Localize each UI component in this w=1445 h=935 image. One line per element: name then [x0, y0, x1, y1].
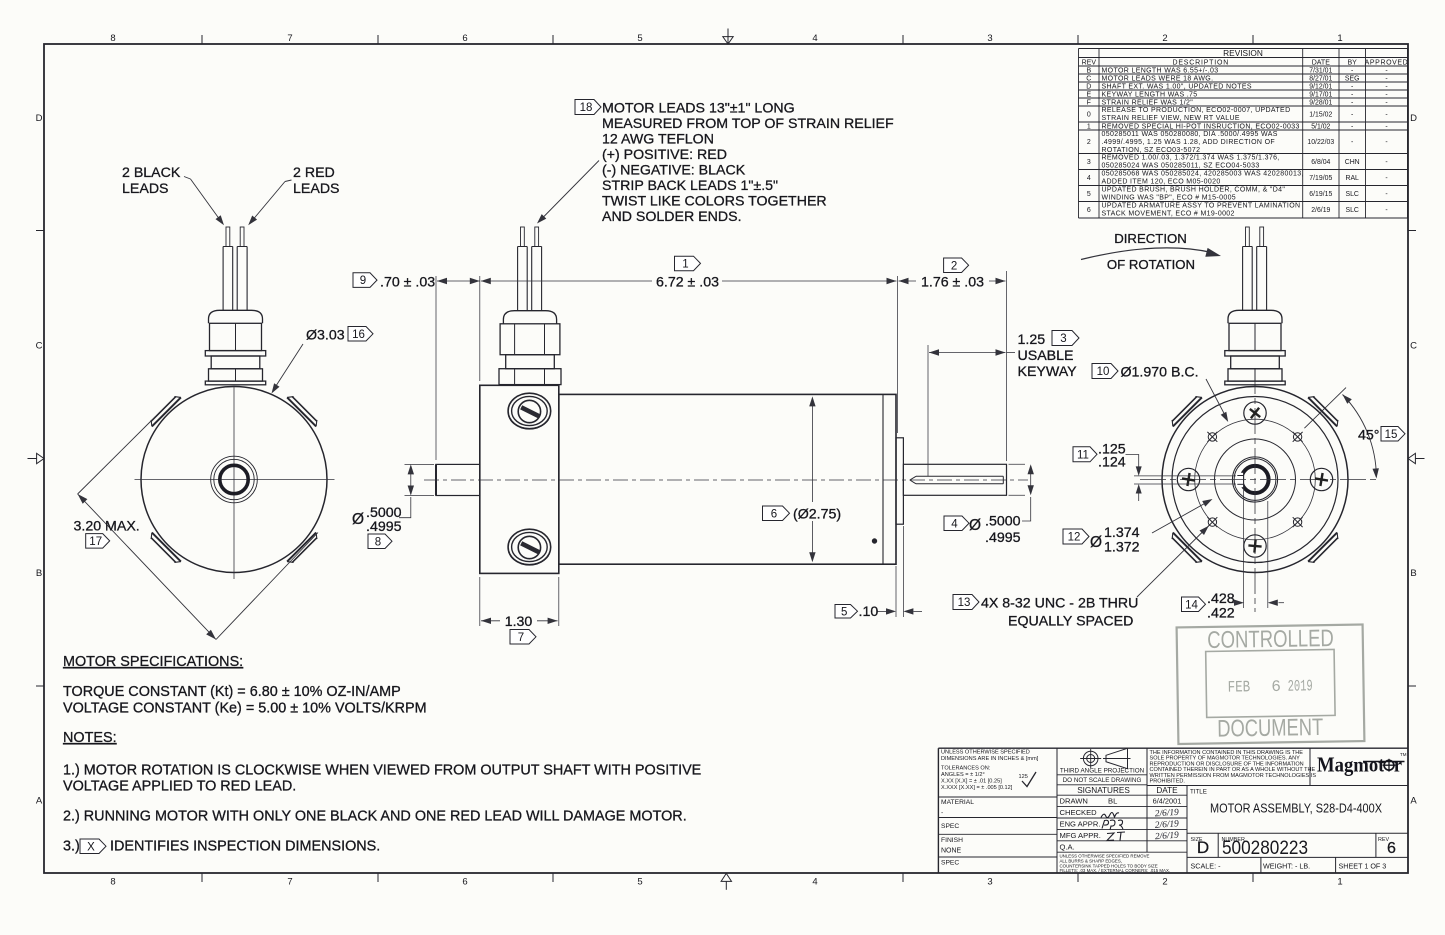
svg-text:3.20 MAX.: 3.20 MAX.: [74, 519, 140, 535]
svg-text:3.): 3.): [63, 839, 80, 855]
svg-text:MATERIAL: MATERIAL: [941, 799, 974, 806]
svg-text:NOTES:: NOTES:: [63, 730, 117, 746]
svg-text:.4999/.4995, 1.25 WAS 1.28, AD: .4999/.4995, 1.25 WAS 1.28, ADD DIRECTIO…: [1102, 139, 1275, 146]
svg-text:PROHIBITED.: PROHIBITED.: [1150, 779, 1186, 785]
svg-text:9/12/01: 9/12/01: [1309, 83, 1332, 90]
svg-text:X.XXX [X.XX] = ± .005 [0.12]: X.XXX [X.XX] = ± .005 [0.12]: [941, 785, 1013, 791]
front view bearing boss circles: [211, 456, 258, 503]
extension lines for length dims: [435, 276, 437, 460]
svg-text:-: -: [1351, 139, 1353, 146]
side view end cap joint line: [882, 394, 884, 564]
svg-text:(+) POSITIVE: RED: (+) POSITIVE: RED: [602, 147, 727, 163]
svg-text:500280223: 500280223: [1222, 837, 1308, 859]
svg-text:ENG APPR.: ENG APPR.: [1060, 820, 1101, 829]
rear view tapped holes 8-32 on bolt circle: [1293, 433, 1301, 441]
svg-text:D: D: [1086, 83, 1091, 90]
svg-text:-: -: [1385, 75, 1387, 82]
side view shaft keyway: [916, 475, 1003, 477]
svg-text:ANGLES = ± 1/2°: ANGLES = ± 1/2°: [941, 772, 985, 778]
svg-text:REVISION: REVISION: [1223, 48, 1263, 58]
svg-text:125: 125: [1019, 774, 1028, 780]
svg-text:4: 4: [812, 877, 817, 888]
svg-text:STRIP BACK LEADS 1"±.5": STRIP BACK LEADS 1"±.5": [602, 178, 778, 194]
svg-text:DIMENSIONS ARE IN INCHES & [mm: DIMENSIONS ARE IN INCHES & [mm]: [941, 756, 1039, 762]
svg-text:USABLE: USABLE: [1018, 348, 1074, 364]
svg-text:9: 9: [360, 275, 366, 287]
svg-text:RAL: RAL: [1345, 175, 1359, 182]
rear view pilot boss circle dia 1.374: [1215, 439, 1296, 520]
svg-text:17: 17: [89, 536, 102, 548]
svg-text:Ø: Ø: [352, 511, 364, 528]
svg-text:Ø: Ø: [969, 517, 981, 534]
svg-text:LEADS: LEADS: [293, 181, 340, 197]
svg-text:.4995: .4995: [985, 530, 1021, 546]
svg-text:6: 6: [462, 877, 467, 888]
svg-text:2: 2: [1162, 33, 1167, 44]
svg-text:7: 7: [287, 33, 292, 44]
rear view housing inner rim circle: [1172, 397, 1338, 563]
svg-text:(-) NEGATIVE: BLACK: (-) NEGATIVE: BLACK: [602, 162, 746, 178]
svg-text:F: F: [1087, 99, 1091, 106]
svg-text:FINISH: FINISH: [941, 837, 963, 844]
svg-text:.124: .124: [1098, 455, 1126, 471]
svg-text:6/19/15: 6/19/15: [1309, 191, 1332, 198]
svg-text:SCALE: -: SCALE: -: [1191, 862, 1222, 871]
svg-text:7: 7: [518, 632, 524, 644]
checked signature squiggle: [1101, 813, 1119, 818]
svg-text:1.372: 1.372: [1104, 540, 1140, 556]
leader to red leads: [285, 180, 292, 182]
mounting band tabs at 45 degrees: [1308, 397, 1337, 426]
svg-text:B: B: [36, 568, 42, 579]
svg-text:SPEC: SPEC: [941, 860, 959, 867]
svg-text:10/22/03: 10/22/03: [1307, 139, 1334, 146]
svg-text:B: B: [1410, 568, 1416, 579]
svg-text:5: 5: [637, 877, 642, 888]
svg-text:2: 2: [951, 260, 957, 272]
svg-text:STACK MOVEMENT, ECO # M19-0002: STACK MOVEMENT, ECO # M19-0002: [1102, 210, 1235, 217]
dim 3.20 max across tabs: [78, 494, 216, 640]
svg-text:-: -: [1385, 123, 1387, 130]
dim .428/.422 flag 14: [1243, 490, 1245, 608]
rear view bolt circle dia 1.970: [1195, 419, 1316, 540]
svg-text:VOLTAGE CONSTANT (Ke) = 5.00 ±: VOLTAGE CONSTANT (Ke) = 5.00 ± 10% VOLTS…: [63, 701, 427, 717]
svg-text:1.) MOTOR ROTATION IS CLOCKWIS: 1.) MOTOR ROTATION IS CLOCKWISE WHEN VIE…: [63, 763, 701, 779]
svg-text:1/15/02: 1/15/02: [1309, 111, 1332, 118]
svg-text:-: -: [1351, 83, 1353, 90]
svg-text:050285024 WAS 050285011, SZ EC: 050285024 WAS 050285011, SZ ECO04-5033: [1102, 162, 1260, 169]
svg-text:IDENTIFIES INSPECTION DIMENSIO: IDENTIFIES INSPECTION DIMENSIONS.: [110, 839, 380, 855]
strain relief cable gland: [503, 311, 556, 324]
svg-text:DOCUMENT: DOCUMENT: [1217, 714, 1324, 743]
svg-text:THIRD ANGLE PROJECTION: THIRD ANGLE PROJECTION: [1060, 767, 1145, 774]
svg-text:AND SOLDER ENDS.: AND SOLDER ENDS.: [602, 209, 742, 225]
svg-text:REMOVED 1.00/.03, 1.372/1.374: REMOVED 1.00/.03, 1.372/1.374 WAS 1.375/…: [1102, 154, 1280, 161]
svg-text:3: 3: [1060, 333, 1066, 345]
svg-text:-: -: [1385, 67, 1387, 74]
svg-text:8: 8: [110, 877, 115, 888]
svg-text:2.) RUNNING MOTOR WITH ONLY ON: 2.) RUNNING MOTOR WITH ONLY ONE BLACK AN…: [63, 809, 687, 825]
svg-text:FILLETS: .03 MAX. / EXTERNAL C: FILLETS: .03 MAX. / EXTERNAL CORNERS: .0…: [1060, 868, 1171, 873]
svg-text:1.25: 1.25: [1018, 332, 1046, 348]
svg-text:STRAIN RELIEF WAS 1/2": STRAIN RELIEF WAS 1/2": [1102, 100, 1194, 107]
side view output shaft: [903, 464, 1006, 495]
dim dia 1.970 BC flag 10: [1092, 364, 1118, 379]
tangent extension line upper-left: [78, 417, 156, 495]
front view motor housing circle: [141, 387, 327, 573]
border centering arrow right: [1415, 458, 1424, 460]
strain relief cable gland: [209, 310, 263, 323]
svg-text:6: 6: [1087, 207, 1091, 214]
dim dia 1.374/1.372 flag 12: [1063, 529, 1089, 544]
svg-text:APPROVED: APPROVED: [1365, 59, 1409, 66]
svg-text:KEYWAY LENGTH WAS .75: KEYWAY LENGTH WAS .75: [1102, 92, 1198, 99]
side view mounting screws: [508, 393, 551, 429]
svg-text:(Ø2.75): (Ø2.75): [793, 507, 841, 523]
svg-text:MOTOR ASSEMBLY, S28-D4-400X: MOTOR ASSEMBLY, S28-D4-400X: [1210, 801, 1382, 816]
eng appr signature squiggle: [1102, 820, 1123, 830]
svg-text:2 RED: 2 RED: [293, 165, 335, 181]
side view vent dot: [872, 539, 876, 543]
svg-text:.422: .422: [1207, 606, 1235, 622]
svg-text:UPDATED ARMATURE ASSY TO PREVE: UPDATED ARMATURE ASSY TO PREVENT LAMINAT…: [1102, 202, 1301, 209]
svg-text:6: 6: [771, 508, 777, 520]
svg-text:MOTOR LEADS 13"±1" LONG: MOTOR LEADS 13"±1" LONG: [602, 100, 795, 116]
svg-text:3: 3: [987, 877, 992, 888]
svg-text:4X 8-32 UNC - 2B THRU: 4X 8-32 UNC - 2B THRU: [981, 596, 1138, 612]
svg-text:-: -: [1385, 99, 1387, 106]
svg-text:TORQUE CONSTANT (Kt) = 6.80 ±: TORQUE CONSTANT (Kt) = 6.80 ± 10% OZ-IN/…: [63, 684, 401, 700]
svg-text:1.76 ± .03: 1.76 ± .03: [921, 274, 984, 290]
svg-text:CHECKED: CHECKED: [1060, 808, 1098, 817]
svg-text:LEADS: LEADS: [122, 181, 169, 197]
svg-text:DESCRIPTION: DESCRIPTION: [1172, 59, 1229, 66]
svg-text:C: C: [36, 341, 43, 352]
svg-text:CHN: CHN: [1345, 159, 1360, 166]
svg-text:6.72 ± .03: 6.72 ± .03: [656, 274, 719, 290]
svg-text:18: 18: [580, 102, 593, 114]
rear view shaft circles: [1232, 457, 1277, 502]
svg-text:DO NOT SCALE DRAWING: DO NOT SCALE DRAWING: [1063, 777, 1142, 784]
svg-text:4: 4: [1087, 175, 1091, 182]
svg-text:TOLERANCES ON:: TOLERANCES ON:: [941, 766, 991, 772]
svg-text:MOTOR LEADS WERE 18 AWG.: MOTOR LEADS WERE 18 AWG.: [1102, 76, 1214, 83]
svg-text:12: 12: [1068, 532, 1081, 544]
dim dia .5000/.4995 left shaft flag 8: [405, 463, 435, 465]
svg-text:-: -: [1385, 91, 1387, 98]
svg-text:D: D: [36, 113, 43, 124]
svg-text:Q.A.: Q.A.: [1060, 842, 1075, 851]
mounting band tabs at 45 degrees: [287, 397, 316, 426]
svg-text:7: 7: [287, 877, 292, 888]
rear view housing outer circle: [1162, 387, 1348, 573]
svg-text:SLC: SLC: [1345, 207, 1358, 214]
motor lead wires: [222, 247, 224, 311]
dim .70 +- .03 flag 9: [353, 273, 377, 288]
controlled document stamp: [1177, 625, 1365, 744]
note 18 text block: [575, 100, 601, 115]
svg-text:1: 1: [682, 259, 688, 271]
svg-text:6/4/2001: 6/4/2001: [1153, 797, 1182, 806]
svg-text:2: 2: [1162, 877, 1167, 888]
svg-text:RELEASE TO PRODUCTION, ECO02-0: RELEASE TO PRODUCTION, ECO02-0007, UPDAT…: [1102, 107, 1291, 114]
svg-text:-: -: [941, 810, 943, 817]
svg-text:B: B: [1086, 67, 1091, 74]
front view centerlines: [135, 479, 335, 481]
svg-text:2 BLACK: 2 BLACK: [122, 165, 181, 181]
svg-text:MOTOR SPECIFICATIONS:: MOTOR SPECIFICATIONS:: [63, 654, 243, 670]
svg-text:16: 16: [352, 329, 365, 341]
side view front shaft stub: [436, 464, 480, 495]
svg-text:UPDATED BRUSH, BRUSH HOLDER, C: UPDATED BRUSH, BRUSH HOLDER, COMM, & "D4…: [1102, 186, 1286, 193]
svg-text:12 AWG TEFLON: 12 AWG TEFLON: [602, 131, 714, 147]
svg-text:ADDED ITEM 120, ECO M05-0020: ADDED ITEM 120, ECO M05-0020: [1102, 178, 1221, 185]
svg-text:4: 4: [812, 33, 817, 44]
svg-text:UNLESS OTHERWISE SPECIFIED: UNLESS OTHERWISE SPECIFIED: [941, 750, 1030, 756]
svg-text:D: D: [1197, 838, 1209, 857]
dim .10 boss flag 5: [895, 566, 897, 617]
svg-text:3: 3: [1087, 159, 1091, 166]
border centering arrow bottom: [725, 881, 727, 889]
svg-text:FEB: FEB: [1228, 678, 1251, 696]
side view motor body: [559, 394, 896, 564]
rear view shaft keyway slot: [1236, 473, 1244, 487]
svg-text:CONTROLLED: CONTROLLED: [1207, 625, 1334, 654]
border centering arrow top: [727, 29, 729, 45]
svg-text:8: 8: [375, 536, 381, 548]
tangent extension line lower-right: [216, 533, 318, 640]
svg-text:DRAWN: DRAWN: [1060, 797, 1088, 806]
svg-text:6: 6: [462, 33, 467, 44]
svg-text:050285068 WAS 050285024, 42028: 050285068 WAS 050285024, 420285003 WAS 4…: [1102, 170, 1304, 177]
dim 6.72 +- .03 flag 1: [675, 256, 701, 271]
svg-text:.4995: .4995: [366, 519, 402, 535]
svg-text:STRAIN RELIEF VIEW, NEW RT VAL: STRAIN RELIEF VIEW, NEW RT VALUE: [1102, 115, 1240, 122]
title block: [937, 748, 939, 873]
svg-text:7/19/05: 7/19/05: [1309, 175, 1332, 182]
svg-text:11: 11: [1077, 449, 1089, 461]
svg-text:VOLTAGE APPLIED TO RED LEAD.: VOLTAGE APPLIED TO RED LEAD.: [63, 779, 296, 795]
svg-text:OF ROTATION: OF ROTATION: [1107, 257, 1195, 272]
dim dia 2.75 flag 6: [811, 399, 813, 503]
dim dia .5000/.4995 output shaft flag 4: [1009, 463, 1026, 465]
svg-text:1: 1: [1337, 877, 1342, 888]
svg-text:KEYWAY: KEYWAY: [1018, 364, 1078, 380]
side view centerline: [424, 479, 1028, 481]
size number rev row: [1187, 832, 1408, 834]
svg-text:BL: BL: [1108, 797, 1117, 806]
svg-text:.5000: .5000: [985, 514, 1021, 530]
dim 1.30 flag 7: [479, 577, 481, 626]
svg-text:-: -: [1385, 83, 1387, 90]
svg-text:-: -: [1351, 111, 1353, 118]
svg-text:-: -: [1351, 99, 1353, 106]
svg-text:15: 15: [1385, 429, 1398, 441]
motor lead wires: [517, 247, 519, 311]
direction of rotation curved arrow: [1081, 248, 1212, 260]
note 4x 8-32 unc flag 13: [953, 595, 979, 610]
svg-text:-: -: [1385, 207, 1387, 214]
svg-text:-: -: [1351, 91, 1353, 98]
svg-text:5: 5: [1087, 191, 1091, 198]
svg-text:WEIGHT: - LB.: WEIGHT: - LB.: [1263, 862, 1310, 871]
svg-text:SEG: SEG: [1345, 75, 1360, 82]
svg-text:EQUALLY SPACED: EQUALLY SPACED: [1008, 614, 1133, 630]
svg-text:-: -: [1385, 159, 1387, 166]
side view rear pilot boss: [896, 438, 903, 524]
svg-text:Ø3.03: Ø3.03: [306, 328, 345, 344]
svg-text:9/28/01: 9/28/01: [1309, 99, 1332, 106]
svg-text:C: C: [1086, 75, 1091, 82]
dim 45 degrees flag 15: [1304, 388, 1346, 429]
svg-text:-: -: [1385, 191, 1387, 198]
svg-text:MEASURED FROM TOP OF STRAIN RE: MEASURED FROM TOP OF STRAIN RELIEF: [602, 116, 894, 132]
side view front mounting block: [480, 385, 559, 573]
svg-text:45°: 45°: [1358, 428, 1379, 444]
svg-text:-: -: [1385, 111, 1387, 118]
svg-text:NONE: NONE: [941, 848, 962, 855]
svg-text:-: -: [1351, 123, 1353, 130]
svg-text:X.XX [X.X] = ± .01 [0.25]: X.XX [X.X] = ± .01 [0.25]: [941, 779, 1002, 785]
svg-text:10: 10: [1097, 366, 1110, 378]
dim 1.76 +- .03 flag 2: [944, 258, 969, 273]
svg-text:TWIST LIKE COLORS TOGETHER: TWIST LIKE COLORS TOGETHER: [602, 193, 827, 209]
svg-text:TM: TM: [1400, 752, 1407, 757]
svg-text:-: -: [1385, 139, 1387, 146]
svg-text:050285011 WAS 050280080, DIA .: 050285011 WAS 050280080, DIA .5000/.4995…: [1102, 131, 1278, 138]
svg-text:7/31/01: 7/31/01: [1309, 67, 1332, 74]
svg-text:9/17/01: 9/17/01: [1309, 91, 1332, 98]
svg-text:MFG APPR.: MFG APPR.: [1060, 831, 1101, 840]
svg-text:0: 0: [1087, 111, 1091, 118]
leader to black leads: [184, 177, 191, 180]
svg-text:SHEET 1 OF 3: SHEET 1 OF 3: [1339, 862, 1387, 871]
svg-text:5: 5: [637, 33, 642, 44]
svg-text:1: 1: [1087, 123, 1091, 130]
svg-text:BY: BY: [1348, 59, 1358, 66]
svg-text:6: 6: [1387, 840, 1396, 857]
svg-text:6/8/04: 6/8/04: [1311, 159, 1330, 166]
svg-text:WINDING WAS "BP", ECO # M15-00: WINDING WAS "BP", ECO # M15-0005: [1102, 194, 1237, 201]
svg-text:4: 4: [951, 518, 958, 530]
svg-text:E: E: [1086, 91, 1091, 98]
svg-text:SHAFT EXT. WAS 1.00", UPDATED: SHAFT EXT. WAS 1.00", UPDATED NOTES: [1102, 84, 1252, 91]
motor lead wires: [1242, 247, 1244, 311]
svg-text:TITLE: TITLE: [1190, 789, 1207, 796]
svg-text:DATE: DATE: [1312, 59, 1330, 66]
svg-text:Ø: Ø: [1090, 534, 1102, 551]
rear view assembly screws phillips: [1244, 402, 1266, 424]
scale weight sheet row: [1187, 856, 1408, 858]
svg-text:-: -: [1385, 175, 1387, 182]
svg-text:3: 3: [987, 33, 992, 44]
svg-text:A: A: [1410, 796, 1417, 807]
svg-text:REV: REV: [1082, 59, 1097, 66]
svg-text:X: X: [87, 841, 95, 853]
svg-text:MOTOR LENGTH WAS 6.55+/-.03: MOTOR LENGTH WAS 6.55+/-.03: [1102, 68, 1219, 75]
svg-text:2: 2: [1087, 139, 1091, 146]
svg-text:A: A: [36, 796, 43, 807]
svg-text:5/1/02: 5/1/02: [1311, 123, 1330, 130]
svg-text:6: 6: [1271, 678, 1281, 696]
dim .125/.124 keyway width flag 11: [1073, 447, 1097, 462]
svg-text:D: D: [1410, 113, 1417, 124]
svg-text:ROTATION, SZ ECO03-5072: ROTATION, SZ ECO03-5072: [1102, 147, 1201, 154]
svg-text:DATE: DATE: [1156, 786, 1178, 795]
svg-text:.70 ± .03: .70 ± .03: [380, 274, 435, 290]
note 18 leader: [540, 161, 600, 222]
svg-text:DIRECTION: DIRECTION: [1114, 231, 1187, 246]
border centering arrow left: [28, 458, 37, 460]
svg-text:13: 13: [958, 597, 971, 609]
strain relief cable gland: [1228, 310, 1282, 323]
mfg appr signature squiggle: [1107, 832, 1125, 841]
svg-text:1.30: 1.30: [505, 614, 533, 630]
svg-text:2/6/19: 2/6/19: [1311, 207, 1330, 214]
svg-text:8: 8: [110, 33, 115, 44]
svg-text:14: 14: [1185, 599, 1198, 611]
svg-text:8/27/01: 8/27/01: [1309, 75, 1332, 82]
third angle projection symbol: [1083, 751, 1098, 766]
svg-text:5: 5: [841, 606, 847, 618]
svg-text:.10: .10: [859, 604, 879, 620]
svg-text:SPEC: SPEC: [941, 823, 959, 830]
svg-text:SLC: SLC: [1345, 191, 1358, 198]
svg-text:2019: 2019: [1288, 677, 1313, 695]
svg-text:1: 1: [1337, 33, 1342, 44]
svg-text:C: C: [1410, 341, 1417, 352]
svg-text:Ø1.970 B.C.: Ø1.970 B.C.: [1121, 365, 1199, 381]
svg-text:SIGNATURES: SIGNATURES: [1077, 786, 1130, 795]
rear view centerlines: [1140, 479, 1380, 481]
svg-text:-: -: [1351, 67, 1353, 74]
